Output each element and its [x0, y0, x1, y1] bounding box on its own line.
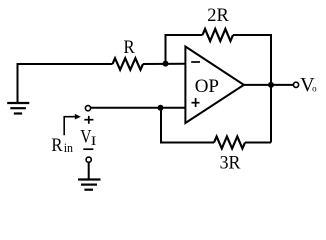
svg-text:o: o — [312, 83, 317, 93]
svg-text:R: R — [51, 134, 62, 155]
svg-text:I: I — [91, 135, 97, 149]
svg-text:OP: OP — [195, 76, 219, 97]
svg-text:in: in — [64, 141, 74, 156]
svg-text:R: R — [124, 36, 135, 57]
svg-text:3R: 3R — [220, 152, 242, 173]
svg-text:2R: 2R — [207, 5, 229, 26]
